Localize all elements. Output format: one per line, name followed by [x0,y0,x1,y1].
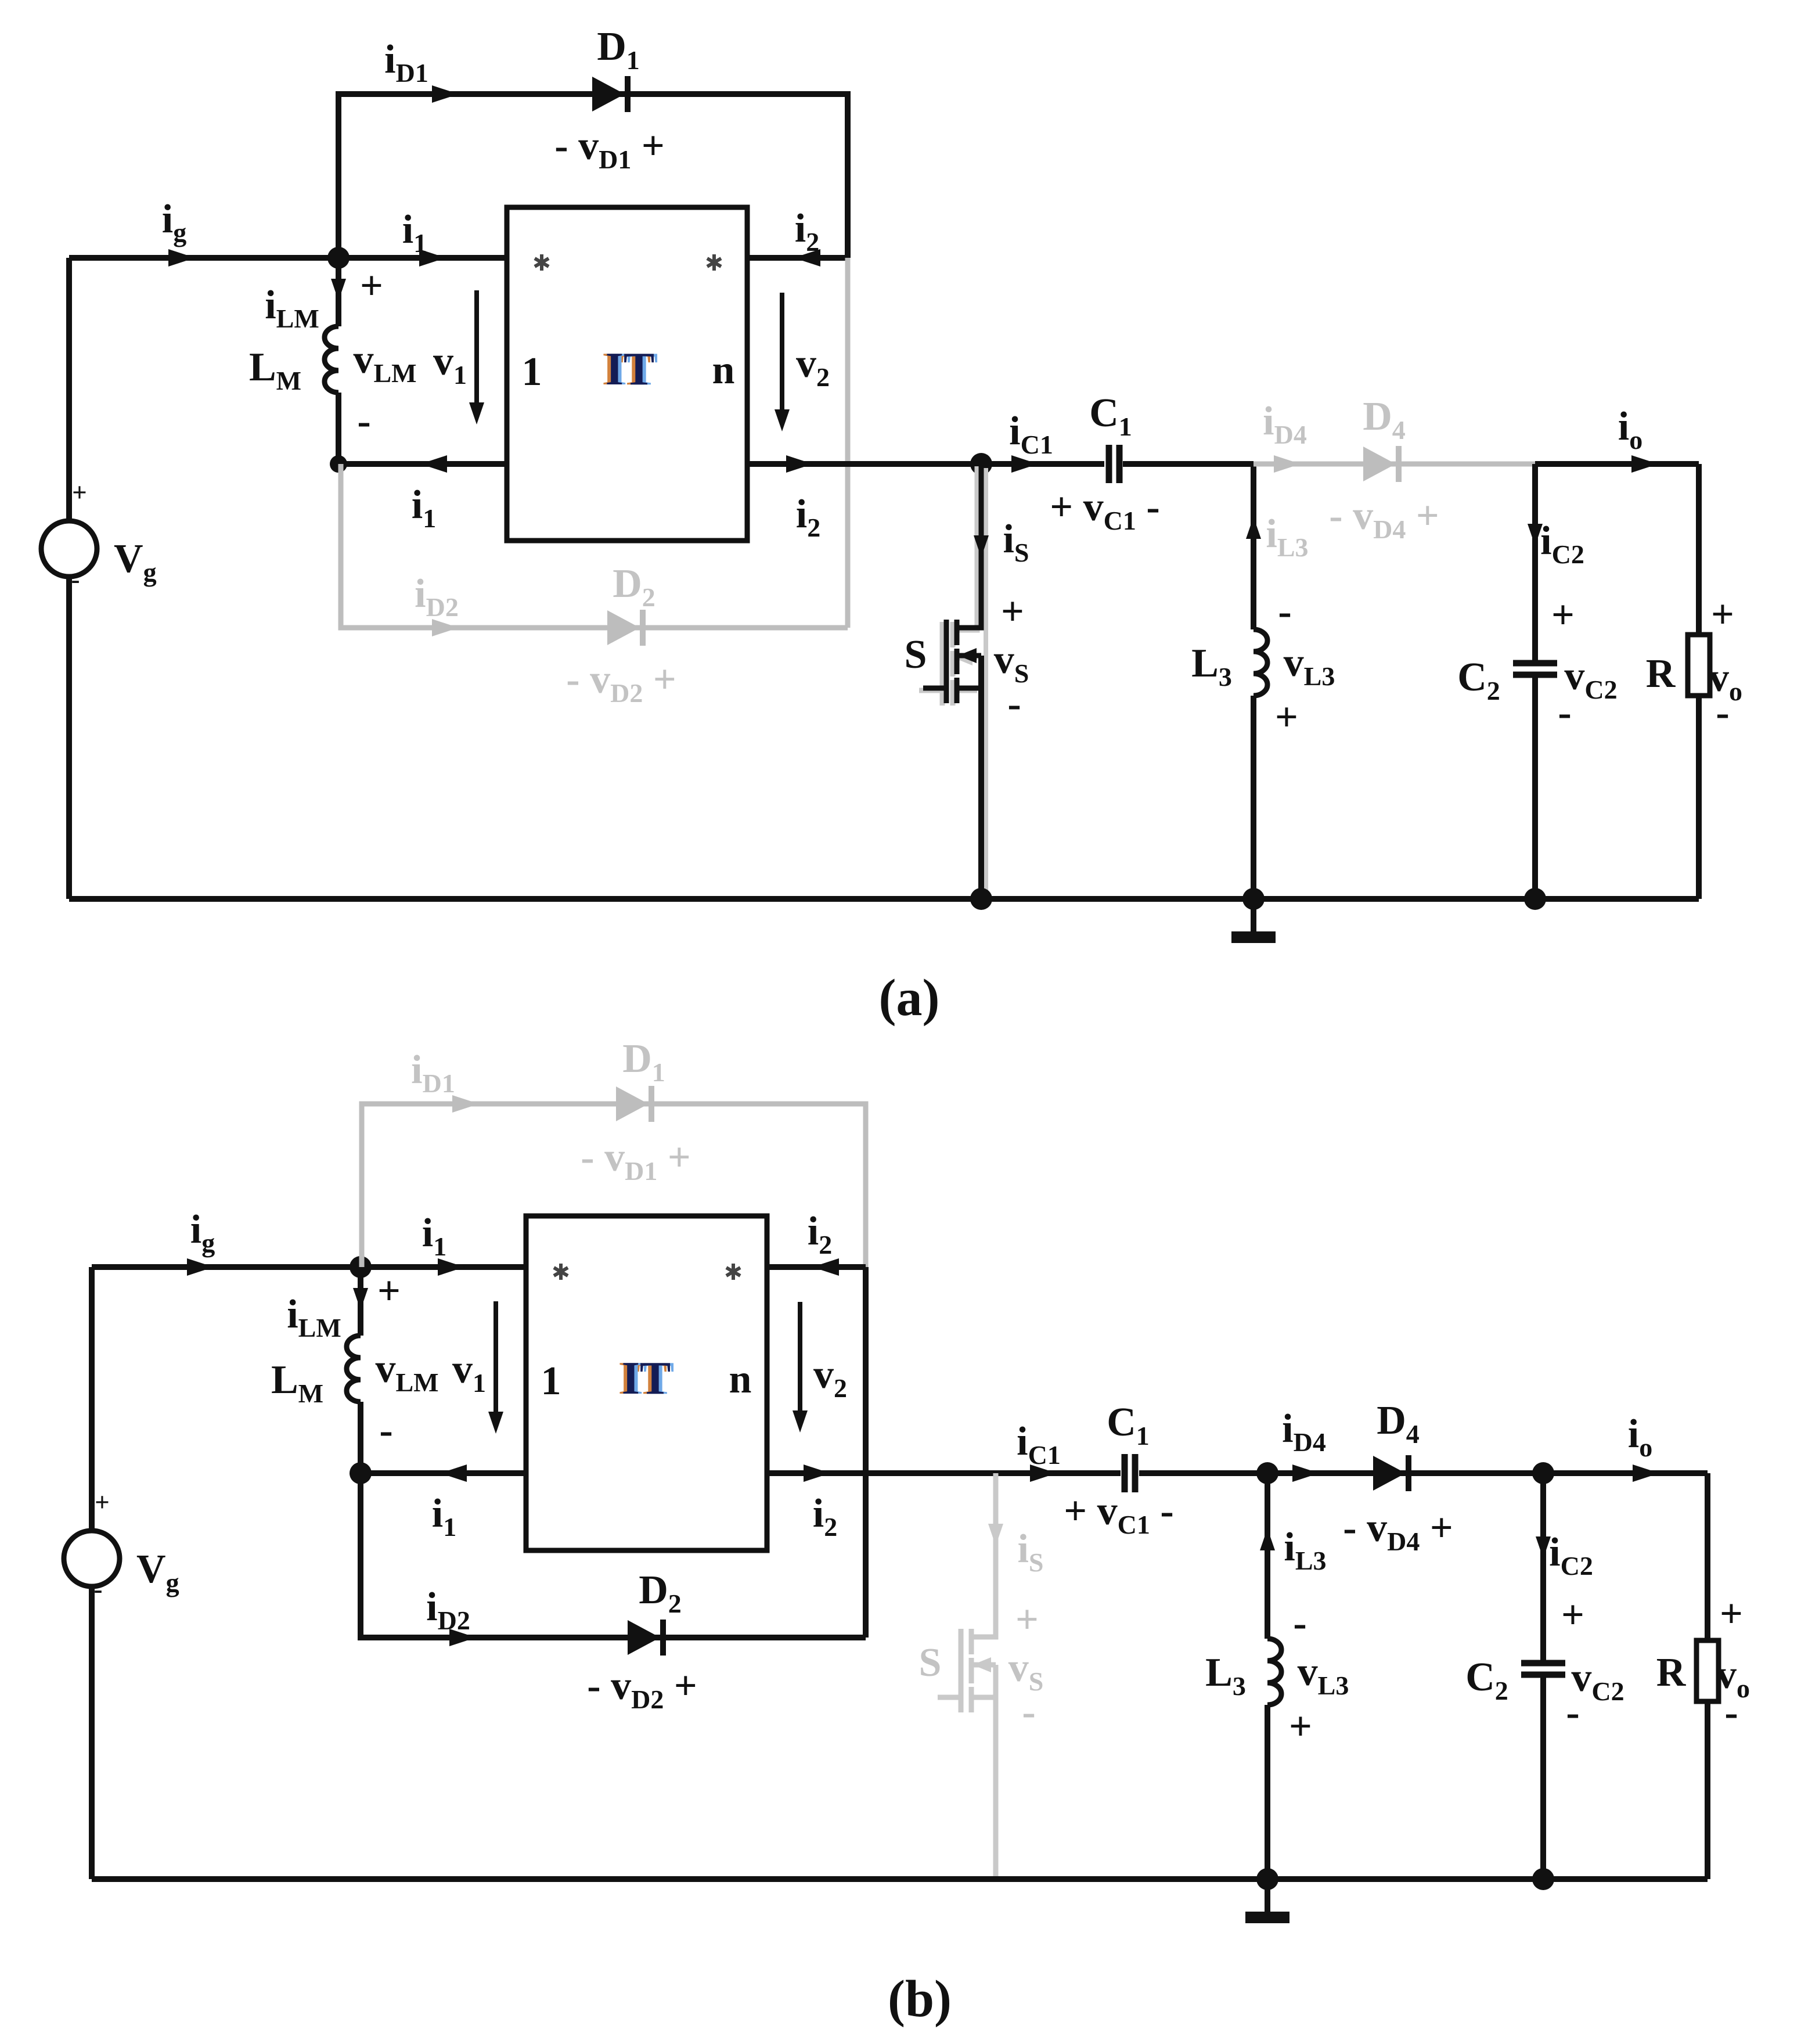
node: switch top junction [970,453,992,475]
wire: D2 loop black [361,1473,866,1638]
svg-text:C1: C1 [1107,1400,1150,1451]
resistor R [1688,635,1710,696]
wire: switch branch grey upper [993,1473,999,1638]
svg-text:D1: D1 [622,1037,665,1087]
svg-text:+: + [72,478,87,507]
diode D4 [1373,1455,1411,1491]
svg-text:C1: C1 [1089,391,1132,441]
svg-text:L3: L3 [1205,1650,1246,1701]
svg-text:1: 1 [522,350,542,394]
wire: L3 branch lower [1251,696,1256,899]
svg-text:iD4: iD4 [1263,399,1307,449]
wire: secondary top segment [767,1264,866,1270]
node: primary top junction [350,1256,372,1278]
svg-text:-: - [1022,1690,1035,1734]
svg-text:+: + [1711,592,1734,637]
inductor LM wire lower [336,393,341,464]
wire: top rail from Vg to transformer box [69,255,507,261]
arrow i1 top [419,249,446,267]
svg-text:iS: iS [1003,517,1029,567]
capacitor C1 [1109,445,1119,483]
polarity star left [554,1264,568,1280]
wire: winding bottom rail right to C1 [767,1470,1121,1476]
svg-text:i1: i1 [402,207,427,258]
wire: R branch upper [1696,464,1702,635]
source Vg [41,521,97,577]
svg-text:+: + [95,1488,110,1517]
svg-text:+: + [377,1269,401,1314]
svg-text:v2: v2 [796,341,830,392]
transformer IT box [526,1216,767,1550]
arrow i1 bottom (pointing left) [420,455,447,473]
svg-text:C2: C2 [1465,1655,1508,1705]
svg-text:+ vC1 -: + vC1 - [1064,1489,1173,1539]
svg-text:-: - [1558,690,1571,735]
diode D2 grey [607,610,646,646]
svg-text:- vD1 +: - vD1 + [581,1135,690,1186]
svg-text:-: - [379,1408,392,1453]
arrow iS [974,535,989,557]
svg-text:Vg: Vg [136,1547,179,1597]
arrow iD2 grey [432,619,459,636]
svg-text:vL3: vL3 [1284,640,1335,691]
arrow iC1 [1011,455,1038,473]
wire: D1 loop [338,94,848,258]
svg-text:i1: i1 [412,483,436,533]
polarity star left [535,254,549,271]
wire: switch source to ground [978,656,984,899]
svg-text:-: - [71,565,80,594]
svg-text:+: + [1551,593,1575,638]
inductor L3 coil [1267,1639,1281,1705]
svg-text:iD2: iD2 [426,1585,470,1635]
svg-text:- vD2 +: - vD2 + [587,1664,697,1714]
svg-text:ig: ig [190,1207,215,1258]
svg-text:D1: D1 [597,24,640,75]
svg-text:S: S [919,1640,942,1685]
arrow ig [187,1258,214,1276]
wire: C2 branch upper [1540,1473,1546,1662]
node: L3 top junction [1256,1462,1278,1484]
svg-text:iD1: iD1 [384,37,428,88]
wire: R branch lower [1696,696,1702,899]
arrow i1 top [438,1258,464,1276]
svg-text:-: - [357,399,370,444]
svg-text:IT: IT [606,344,655,395]
node: C2 top junction [1532,1462,1554,1484]
svg-text:R: R [1656,1650,1687,1695]
diode D2 [628,1620,666,1656]
arrow iD4 grey [1274,455,1301,473]
capacitor C1 [1125,1454,1135,1492]
wire: L3 branch upper [1265,1473,1270,1639]
ground symbol [1231,899,1276,943]
svg-text:iLM: iLM [287,1292,341,1343]
svg-text:(a): (a) [879,969,940,1027]
svg-text:+: + [1015,1597,1039,1642]
svg-text:-: - [1293,1601,1306,1646]
arrow i2 top (pointing left into box) [794,249,820,267]
arrow iL3 (up) [1246,517,1261,539]
wire: grey D2 loop [341,464,848,628]
svg-text:i2: i2 [813,1491,837,1542]
arrow i2 top (pointing left into box) [812,1258,839,1276]
wire: switch source to ground grey [993,1665,999,1879]
wire: L3 branch upper [1251,464,1256,629]
svg-text:IT: IT [622,1353,671,1404]
svg-text:ig: ig [162,197,186,247]
svg-text:- vD4 +: - vD4 + [1329,494,1439,544]
svg-text:iD2: iD2 [415,571,459,622]
svg-text:n: n [729,1357,752,1402]
wire: Vg branch lower [89,1586,95,1879]
arrow iC2 (down) [1528,524,1543,546]
node: C2 at ground [1524,888,1546,910]
svg-text:+: + [1720,1592,1743,1636]
svg-text:iD1: iD1 [411,1048,455,1098]
svg-text:D2: D2 [639,1568,682,1618]
polarity star right [707,254,721,271]
inductor LM wire lower [358,1402,363,1473]
arrow i2 bottom [804,1464,830,1482]
svg-text:+: + [360,264,383,308]
svg-text:i2: i2 [796,492,820,542]
transformer IT box [507,207,747,541]
inductor LM coil [325,326,338,393]
inductor LM coil [347,1336,361,1402]
svg-text:vC2: vC2 [1564,654,1617,704]
arrow iD1 grey [452,1095,479,1113]
resistor R [1696,1640,1719,1701]
wire: ground rail [92,1876,1708,1882]
node: L3 at ground [1256,1868,1278,1890]
arrow i1 bottom (pointing left) [440,1464,467,1482]
node: C2 at ground [1532,1868,1554,1890]
svg-text:- vD1 +: - vD1 + [554,124,664,174]
wire: C2 branch lower [1540,1676,1546,1879]
arrow iLM [331,279,346,301]
polarity star right [726,1264,740,1280]
arrow iD2 [449,1629,476,1646]
mosfet S grey [938,1473,996,1712]
svg-text:iC1: iC1 [1017,1419,1061,1470]
arrow iL3 (up) [1260,1528,1275,1550]
mosfet S [923,464,981,703]
capacitor C2 [1513,663,1557,675]
svg-text:iC2: iC2 [1549,1530,1593,1581]
wire: grey D4 segment [1254,462,1539,467]
inductor LM wire upper [336,258,341,326]
node: L3 at ground [1242,888,1265,910]
svg-text:- vD4 +: - vD4 + [1343,1506,1453,1556]
wire: C1 to L3 node [1123,461,1254,467]
svg-text:+ vC1 -: + vC1 - [1050,485,1159,535]
svg-text:+: + [1001,589,1024,634]
svg-text:-: - [1007,682,1021,726]
wire: top segment C2 to R [1535,461,1699,467]
svg-text:vS: vS [994,638,1029,688]
svg-text:+: + [1289,1704,1312,1749]
svg-text:-: - [1724,1690,1738,1735]
wire: winding bottom rail left [361,1470,526,1476]
arrow v1 (voltage arrow) [474,290,479,417]
wire: top rail from Vg to transformer box [92,1264,526,1270]
arrow iS grey [988,1524,1003,1546]
arrow io [1631,455,1658,473]
wire: C2 branch lower [1532,676,1538,899]
wire: Vg branch upper [66,258,72,521]
wire: secondary top segment to D1 loop [747,255,848,261]
svg-text:-: - [1566,1690,1579,1735]
wire: R branch upper [1705,1473,1710,1640]
svg-text:-: - [94,1575,103,1604]
wire: D4 segment [1267,1470,1543,1476]
svg-text:v1: v1 [433,339,467,390]
svg-text:i2: i2 [808,1209,832,1259]
arrow i2 bottom [786,455,813,473]
svg-text:iC1: iC1 [1009,409,1053,459]
arrow ig [168,249,195,267]
node: primary bottom junction [330,455,347,473]
wire: Vg branch upper [89,1267,95,1531]
wire: D1 loop grey [362,1104,866,1267]
svg-text:io: io [1628,1412,1652,1462]
source Vg [64,1531,120,1586]
wire: top segment C2 to R [1543,1470,1708,1476]
svg-text:vLM: vLM [353,337,416,388]
wire: R branch lower [1705,1701,1710,1879]
wire: L3 branch lower [1265,1705,1270,1879]
node: primary bottom junction [350,1462,372,1484]
svg-text:+: + [1561,1593,1584,1638]
svg-text:iLM: iLM [265,283,319,333]
wire: C2 branch upper [1532,464,1538,662]
svg-text:n: n [712,348,735,393]
svg-text:(b): (b) [888,1970,952,2028]
diode D1 [592,76,631,112]
svg-text:LM: LM [249,345,301,395]
svg-text:vLM: vLM [375,1347,438,1397]
inductor L3 coil [1254,629,1267,696]
arrow v2 (voltage arrow) [798,1302,802,1425]
wire: switch drain ghost grey [984,468,988,899]
svg-text:1: 1 [541,1359,561,1404]
wire: grey vertical D2 loop right side [845,258,851,628]
arrow v2 (voltage arrow) [780,293,784,424]
svg-text:iC2: iC2 [1540,519,1584,569]
svg-text:- vD2 +: - vD2 + [566,657,676,708]
svg-text:iL3: iL3 [1266,512,1308,562]
svg-text:iS: iS [1017,1527,1043,1577]
svg-text:LM: LM [271,1358,323,1408]
node: S at ground [970,888,992,910]
capacitor C2 [1521,1663,1565,1675]
svg-text:i2: i2 [795,206,819,257]
svg-text:v1: v1 [452,1347,486,1398]
ground symbol [1245,1879,1289,1923]
node: primary top junction [327,247,350,269]
svg-text:vS: vS [1008,1646,1044,1696]
svg-text:R: R [1646,652,1676,696]
svg-text:D2: D2 [613,562,655,612]
arrow iC2 (down) [1536,1536,1551,1559]
svg-text:C2: C2 [1457,655,1500,706]
wire: C1 to L3 node [1139,1470,1267,1476]
svg-text:v2: v2 [813,1352,847,1403]
inductor LM wire upper [358,1267,363,1336]
wire: winding bottom rail right to C1 [747,461,1104,467]
arrow iLM [353,1288,368,1310]
wire: Vg branch lower [66,577,72,899]
svg-text:S: S [905,632,927,677]
arrow v1 (voltage arrow) [494,1301,498,1426]
mosfet S ghost grey [919,466,977,706]
svg-text:Vg: Vg [114,537,157,587]
arrow iC1 [1030,1464,1057,1482]
svg-text:i1: i1 [422,1211,446,1261]
svg-text:-: - [1716,690,1729,735]
arrow io [1633,1464,1659,1482]
svg-text:-: - [1278,589,1291,634]
arrow iD1 [432,85,459,103]
svg-text:iD4: iD4 [1282,1406,1326,1457]
svg-text:i1: i1 [432,1491,456,1542]
svg-text:D4: D4 [1377,1398,1420,1449]
diode D4 grey [1363,446,1402,482]
svg-text:L3: L3 [1191,641,1232,692]
diode D1 grey [616,1086,654,1122]
svg-text:vL3: vL3 [1298,1650,1349,1700]
svg-text:+: + [1275,695,1298,740]
arrow iD4 [1292,1464,1319,1482]
svg-text:io: io [1618,404,1642,455]
wire: D2 loop right vertical [863,1267,869,1638]
wire: winding bottom rail left [338,461,507,467]
svg-text:D4: D4 [1363,394,1406,445]
svg-text:iL3: iL3 [1284,1525,1326,1575]
wire: ground rail [69,896,1699,902]
